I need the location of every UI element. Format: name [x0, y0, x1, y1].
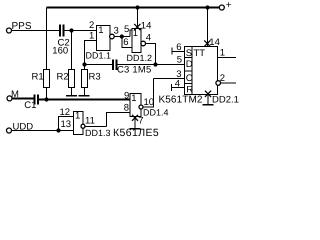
node RC junction: [153, 62, 157, 66]
svg-text:TT: TT: [194, 48, 206, 59]
capacitor C2: [52, 25, 69, 57]
node junction UDD pin12: [56, 128, 60, 132]
svg-text:C: C: [186, 73, 193, 84]
wire R2 bottom stem: [71, 88, 73, 96]
svg-text:1: 1: [89, 31, 94, 42]
wire junction to DD1.2 pin6: [122, 37, 132, 48]
svg-text:160: 160: [52, 46, 68, 57]
wire top supply rail: [47, 7, 220, 9]
flip-flop DD2.1 K561TM2 body: [185, 47, 218, 96]
svg-text:+: +: [226, 0, 232, 11]
svg-text:1: 1: [131, 93, 136, 104]
wire junction to DD1.3 pin12: [59, 117, 74, 131]
svg-text:DD1.2: DD1.2: [127, 53, 153, 63]
pin 14 power X mark DD1.2: [134, 21, 151, 32]
wire junction to DD1.2 pin5: [130, 30, 132, 37]
svg-text:К561ЛЕ5: К561ЛЕ5: [113, 127, 159, 139]
wire rail drop to DD2 pin14: [207, 8, 209, 47]
wire rail drop to DD1.2 pin14: [137, 8, 139, 29]
wire R1 bottom to M rail: [46, 88, 48, 100]
ground bar under R3: [79, 95, 90, 97]
output bubble DD1.4: [139, 105, 143, 109]
svg-text:5: 5: [124, 24, 129, 35]
wire rail drop to R1: [46, 8, 48, 70]
svg-text:DD2.1: DD2.1: [212, 95, 239, 106]
op-amp gate DD1.3 (NOR as inverter): [74, 111, 84, 135]
svg-text:14: 14: [209, 37, 220, 48]
output bubble DD1.1: [110, 34, 115, 39]
wire junction to C3: [85, 64, 114, 66]
svg-text:8: 8: [124, 103, 129, 114]
svg-text:K561TM2: K561TM2: [159, 95, 203, 106]
wire DD2 pin3 C input from DD1.4: [154, 78, 185, 80]
svg-text:R1: R1: [32, 72, 44, 83]
pin 7 X mark and ground DD2: [203, 91, 214, 105]
ground bar under R2: [66, 95, 77, 97]
wire DD1.1 out pin3: [114, 36, 130, 38]
svg-text:2: 2: [220, 73, 225, 84]
svg-text:R2: R2: [57, 72, 69, 83]
svg-text:14: 14: [141, 21, 152, 32]
svg-text:12: 12: [60, 107, 71, 118]
wire DD2 pin1 Q output stub: [218, 57, 237, 59]
op-amp gate DD1.4 (NOR as inverter): [130, 93, 141, 117]
svg-text:10: 10: [144, 97, 155, 108]
node junction R3 C3: [82, 62, 86, 66]
wire DD1.2 out to RC node: [146, 44, 156, 65]
wire DD1.1 pin1 to R3 top: [85, 41, 97, 70]
node junction DD1.1 out: [120, 34, 124, 38]
svg-text:11: 11: [85, 116, 95, 127]
svg-text:9: 9: [124, 91, 129, 102]
svg-text:13: 13: [61, 119, 72, 130]
svg-text:DD1.4: DD1.4: [143, 108, 169, 118]
svg-text:6: 6: [123, 37, 128, 48]
svg-text:1: 1: [75, 111, 80, 122]
svg-text:4: 4: [146, 33, 151, 44]
wire DD2 pin4 R stub with tick: [171, 79, 184, 92]
terminal plus output: [219, 5, 224, 10]
wire DD1.4 pin8 from DD1.3 out: [107, 113, 131, 127]
pin 7 X mark and ground DD1.4: [130, 115, 144, 129]
svg-text:7: 7: [138, 116, 143, 127]
resistor R2: [57, 70, 75, 88]
node junction rail to DD1.2 pin14: [135, 5, 139, 9]
terminal M: [7, 96, 12, 101]
svg-text:5: 5: [177, 55, 182, 66]
node junction C2 R2: [69, 28, 73, 32]
wire C1 to DD1.4 pin9: [38, 99, 130, 101]
svg-text:R3: R3: [89, 72, 101, 83]
pin 14 power X mark DD2: [204, 37, 220, 48]
wire UDD to DD1.3 pin13: [12, 130, 74, 132]
wire DD2 pin6 S stub with tick: [172, 42, 185, 55]
svg-text:2: 2: [89, 20, 94, 31]
output bubble DD1.3: [81, 124, 85, 128]
wire DD1.3 out to DD1.4 pin8: [85, 125, 106, 127]
svg-text:4: 4: [175, 79, 180, 90]
wire M to C1: [12, 97, 35, 99]
output bubble DD2 pin2: [216, 81, 221, 86]
capacitor C1: [24, 95, 38, 112]
wire C3 to RC node: [117, 64, 185, 66]
svg-text:S: S: [186, 48, 192, 59]
node junction rail to DD2 pin14: [205, 5, 209, 9]
node junction R1 M rail: [44, 97, 48, 101]
wire PPS to C2: [12, 30, 61, 32]
svg-text:C1: C1: [24, 100, 36, 111]
wire C2 to DD1.1 pin2: [64, 30, 97, 32]
terminal PPS: [7, 28, 12, 33]
wire R3 bottom stem: [84, 88, 86, 96]
terminal UDD: [7, 128, 12, 133]
output bubble DD1.2: [141, 41, 146, 46]
wire junction to R2: [71, 31, 73, 70]
resistor R3: [82, 70, 101, 88]
wire DD2 pin2 inverted output stub: [221, 82, 237, 84]
resistor R1: [32, 70, 50, 88]
wire DD1.4 out to DD2 pin3: [143, 79, 153, 108]
svg-text:DD1.1: DD1.1: [86, 51, 112, 61]
svg-text:C3 1M5: C3 1M5: [117, 65, 151, 76]
capacitor C3: [113, 60, 151, 76]
op-amp gate DD1.1 (NOR as inverter): [97, 25, 111, 51]
op-amp gate DD1.2 (NOR as inverter): [132, 28, 141, 53]
svg-text:1: 1: [98, 25, 103, 36]
svg-text:DD1.3: DD1.3: [85, 128, 111, 138]
svg-text:D: D: [186, 59, 193, 70]
svg-text:6: 6: [176, 42, 181, 53]
svg-text:1: 1: [220, 48, 225, 59]
